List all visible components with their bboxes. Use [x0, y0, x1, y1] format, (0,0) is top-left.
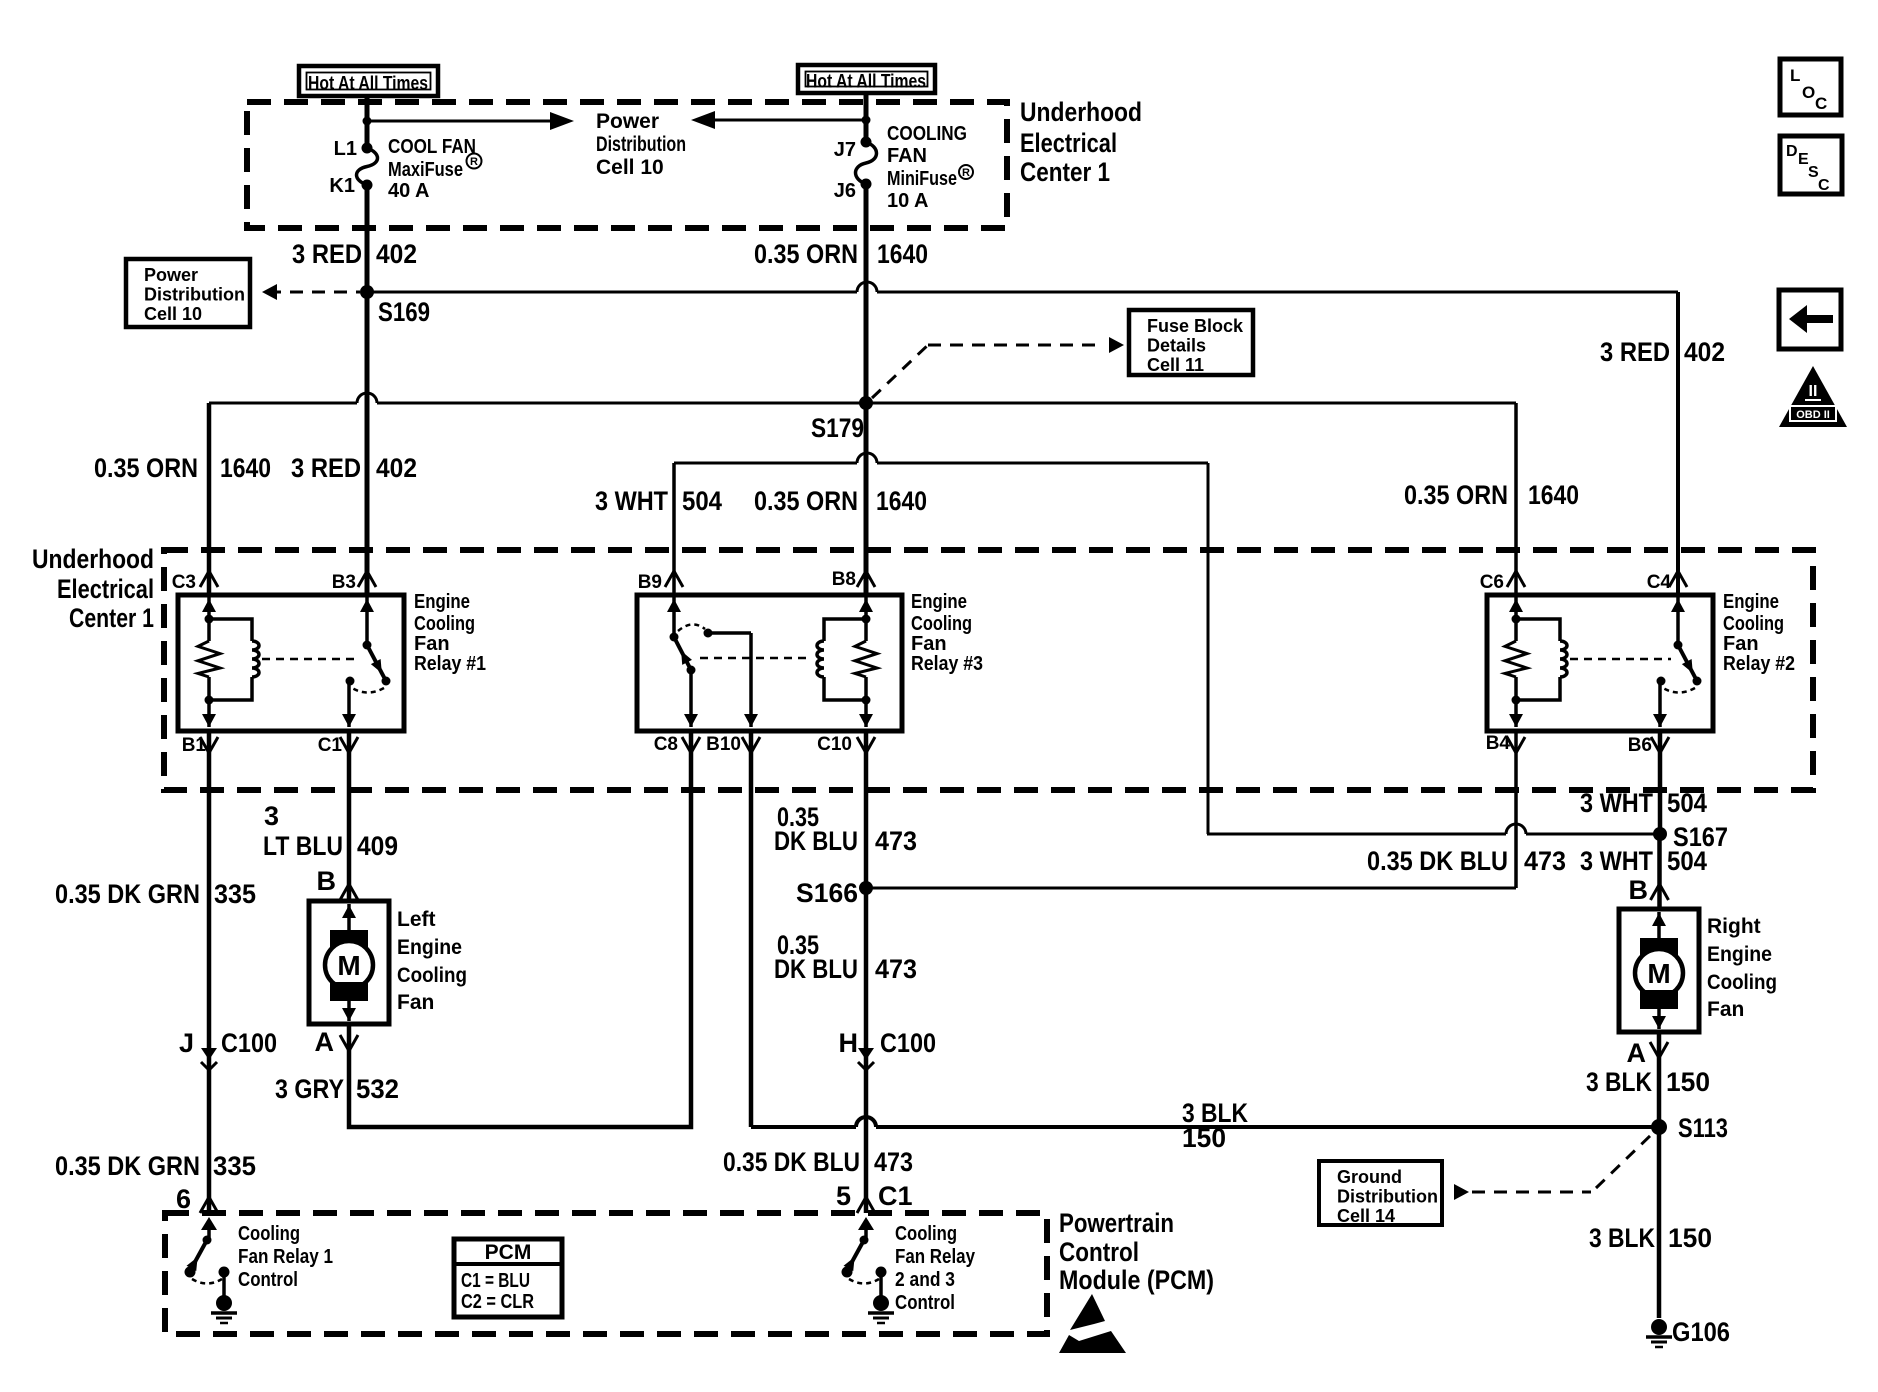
svg-text:Center 1: Center 1 [69, 603, 154, 633]
svg-text:B10: B10 [706, 734, 741, 755]
svg-text:PCM: PCM [485, 1241, 532, 1264]
svg-text:Fan: Fan [1723, 633, 1759, 655]
svg-text:6: 6 [176, 1184, 191, 1214]
svg-text:1640: 1640 [876, 486, 927, 516]
svg-text:Cooling: Cooling [895, 1223, 957, 1245]
svg-text:0.35 ORN: 0.35 ORN [1404, 480, 1508, 510]
svg-text:S179: S179 [811, 413, 864, 443]
svg-text:Relay #1: Relay #1 [414, 653, 486, 675]
svg-text:J7: J7 [834, 139, 856, 161]
svg-text:3 BLK: 3 BLK [1589, 1223, 1655, 1253]
svg-text:402: 402 [376, 453, 417, 483]
svg-text:1640: 1640 [877, 239, 928, 269]
svg-text:R: R [962, 167, 970, 179]
svg-text:FAN: FAN [887, 145, 927, 167]
svg-text:473: 473 [874, 1147, 913, 1177]
svg-text:Cell 14: Cell 14 [1337, 1206, 1395, 1226]
svg-text:Cooling: Cooling [911, 613, 972, 635]
svg-text:10 A: 10 A [887, 190, 929, 212]
svg-text:S113: S113 [1678, 1113, 1728, 1143]
svg-text:C3: C3 [172, 572, 196, 593]
svg-text:335: 335 [214, 879, 256, 909]
svg-text:40 A: 40 A [388, 180, 430, 202]
svg-text:J: J [179, 1028, 194, 1058]
svg-text:A: A [315, 1027, 335, 1057]
svg-text:Cooling: Cooling [414, 613, 475, 635]
svg-text:Right: Right [1707, 915, 1761, 938]
svg-text:402: 402 [376, 239, 417, 269]
svg-text:Underhood: Underhood [32, 544, 154, 574]
svg-text:B9: B9 [638, 572, 662, 593]
svg-text:Hot At All Times: Hot At All Times [308, 74, 428, 95]
svg-text:Fan: Fan [397, 991, 434, 1014]
svg-text:R: R [470, 156, 478, 168]
svg-text:504: 504 [1667, 846, 1707, 876]
svg-text:Fan Relay: Fan Relay [895, 1246, 976, 1268]
svg-text:0.35 ORN: 0.35 ORN [754, 239, 858, 269]
svg-text:Engine: Engine [397, 936, 462, 959]
svg-text:Cell 10: Cell 10 [596, 156, 664, 179]
svg-text:Fan: Fan [1707, 998, 1744, 1021]
svg-text:DK BLU: DK BLU [774, 826, 858, 856]
svg-text:Cooling: Cooling [1723, 613, 1784, 635]
svg-text:Module (PCM): Module (PCM) [1059, 1265, 1214, 1295]
svg-text:C2 = CLR: C2 = CLR [461, 1291, 534, 1313]
svg-text:0.35 ORN: 0.35 ORN [94, 453, 198, 483]
svg-text:Left: Left [397, 908, 436, 931]
svg-text:B6: B6 [1628, 735, 1652, 756]
svg-text:Cooling: Cooling [1707, 971, 1777, 994]
svg-text:Engine: Engine [911, 591, 967, 613]
svg-text:COOL FAN: COOL FAN [388, 136, 476, 158]
svg-text:C4: C4 [1647, 572, 1672, 593]
svg-text:Fan Relay 1: Fan Relay 1 [238, 1246, 333, 1268]
svg-text:LT BLU: LT BLU [263, 831, 343, 861]
svg-text:Hot At All Times: Hot At All Times [806, 72, 926, 93]
svg-text:Fan: Fan [414, 633, 450, 655]
svg-text:C100: C100 [221, 1028, 277, 1058]
svg-text:1640: 1640 [220, 453, 271, 483]
svg-text:Details: Details [1147, 336, 1206, 356]
svg-text:COOLING: COOLING [887, 123, 967, 145]
svg-text:150: 150 [1666, 1067, 1710, 1097]
svg-text:473: 473 [875, 826, 917, 856]
svg-text:A: A [1627, 1038, 1647, 1068]
svg-text:C: C [1818, 177, 1830, 194]
svg-text:Fan: Fan [911, 633, 947, 655]
svg-text:S169: S169 [378, 297, 430, 327]
svg-text:504: 504 [682, 486, 722, 516]
svg-text:B4: B4 [1486, 733, 1511, 754]
svg-text:Powertrain: Powertrain [1059, 1208, 1174, 1238]
svg-text:Engine: Engine [1723, 591, 1779, 613]
svg-text:Relay #2: Relay #2 [1723, 653, 1795, 675]
svg-text:Fuse Block: Fuse Block [1147, 316, 1244, 336]
svg-text:Engine: Engine [1707, 943, 1772, 966]
svg-text:B8: B8 [832, 569, 856, 590]
svg-text:Control: Control [1059, 1237, 1139, 1267]
svg-text:3 RED: 3 RED [1600, 337, 1670, 367]
svg-text:Ground: Ground [1337, 1167, 1402, 1187]
svg-text:Center 1: Center 1 [1020, 157, 1110, 187]
svg-text:B3: B3 [332, 572, 356, 593]
svg-text:Cooling: Cooling [238, 1223, 300, 1245]
svg-text:3 GRY: 3 GRY [275, 1074, 344, 1104]
svg-text:335: 335 [213, 1151, 256, 1181]
svg-text:Distribution: Distribution [144, 285, 245, 305]
svg-text:473: 473 [1524, 846, 1566, 876]
svg-text:C1: C1 [318, 735, 343, 756]
svg-text:II: II [1809, 383, 1818, 400]
svg-text:0.35 ORN: 0.35 ORN [754, 486, 858, 516]
svg-text:DK BLU: DK BLU [774, 954, 858, 984]
svg-text:Cooling: Cooling [397, 964, 467, 987]
svg-text:532: 532 [356, 1074, 399, 1104]
svg-text:473: 473 [875, 954, 917, 984]
svg-text:0.35 DK GRN: 0.35 DK GRN [55, 1151, 200, 1181]
svg-text:Control: Control [895, 1292, 955, 1314]
svg-text:Relay #3: Relay #3 [911, 653, 983, 675]
svg-text:D: D [1786, 143, 1798, 160]
svg-text:150: 150 [1182, 1123, 1226, 1153]
svg-text:Control: Control [238, 1269, 298, 1291]
svg-text:402: 402 [1684, 337, 1725, 367]
svg-text:3 WHT: 3 WHT [595, 486, 668, 516]
svg-text:Electrical: Electrical [57, 574, 154, 604]
svg-text:C8: C8 [654, 734, 678, 755]
svg-text:3 WHT: 3 WHT [1580, 788, 1653, 818]
svg-text:B: B [1629, 875, 1649, 905]
svg-text:Distribution: Distribution [1337, 1187, 1438, 1207]
svg-text:Underhood: Underhood [1020, 97, 1142, 127]
svg-text:Power: Power [596, 110, 659, 133]
svg-text:Power: Power [144, 265, 198, 285]
svg-text:Engine: Engine [414, 591, 470, 613]
svg-text:3 WHT: 3 WHT [1580, 846, 1653, 876]
svg-text:C10: C10 [817, 734, 852, 755]
svg-text:M: M [1647, 958, 1670, 989]
svg-text:K1: K1 [329, 175, 355, 197]
svg-text:H: H [839, 1028, 859, 1058]
svg-text:Distribution: Distribution [596, 133, 686, 156]
svg-text:409: 409 [357, 831, 398, 861]
svg-text:Cell 10: Cell 10 [144, 304, 202, 324]
svg-text:3 RED: 3 RED [291, 453, 361, 483]
svg-text:0.35 DK BLU: 0.35 DK BLU [723, 1147, 860, 1177]
svg-text:Electrical: Electrical [1020, 128, 1117, 158]
svg-text:504: 504 [1667, 788, 1707, 818]
svg-text:3 RED: 3 RED [292, 239, 362, 269]
svg-text:1640: 1640 [1528, 480, 1579, 510]
svg-text:L: L [1790, 66, 1800, 85]
svg-text:0.35 DK GRN: 0.35 DK GRN [55, 879, 200, 909]
svg-text:S166: S166 [796, 878, 858, 908]
svg-text:C1 = BLU: C1 = BLU [461, 1270, 530, 1292]
svg-text:0.35 DK BLU: 0.35 DK BLU [1367, 846, 1508, 876]
svg-text:OBD II: OBD II [1796, 409, 1830, 421]
svg-text:2 and 3: 2 and 3 [895, 1269, 955, 1291]
svg-text:B1: B1 [182, 735, 207, 756]
svg-text:O: O [1802, 83, 1815, 102]
svg-text:3 BLK: 3 BLK [1586, 1067, 1652, 1097]
svg-text:3: 3 [264, 801, 279, 831]
svg-text:C100: C100 [880, 1028, 936, 1058]
svg-text:C: C [1815, 94, 1827, 113]
svg-text:M: M [337, 950, 360, 981]
svg-text:MiniFuse: MiniFuse [887, 168, 957, 190]
svg-text:B: B [317, 866, 337, 896]
svg-text:C6: C6 [1480, 572, 1504, 593]
svg-text:C1: C1 [878, 1181, 913, 1211]
svg-text:5: 5 [836, 1181, 851, 1211]
svg-text:MaxiFuse: MaxiFuse [388, 159, 463, 181]
svg-text:J6: J6 [834, 180, 856, 202]
svg-text:L1: L1 [334, 138, 357, 160]
svg-text:G106: G106 [1672, 1317, 1730, 1347]
svg-text:150: 150 [1668, 1223, 1712, 1253]
svg-text:Cell 11: Cell 11 [1147, 355, 1204, 375]
